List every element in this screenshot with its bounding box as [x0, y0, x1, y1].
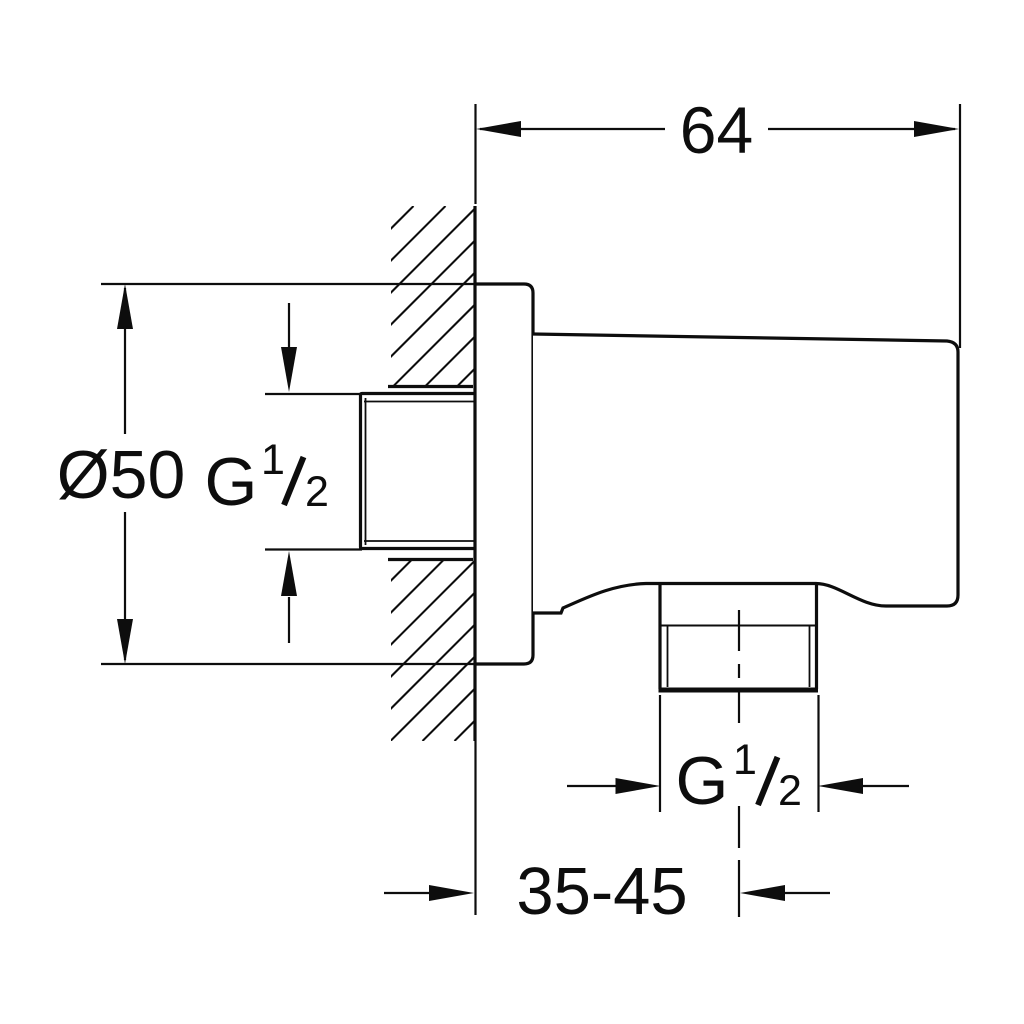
outlet tube — [659, 584, 819, 691]
wall hatching — [0, 206, 990, 741]
wall hole bottom edge — [388, 558, 473, 561]
wall hole top edge — [388, 385, 473, 388]
svg-text:35-45: 35-45 — [516, 854, 687, 929]
svg-text:2: 2 — [778, 767, 802, 815]
dimension G 1/2 (outlet) — [567, 695, 909, 812]
pipe top reference line — [265, 393, 362, 395]
svg-text:64: 64 — [680, 93, 753, 167]
svg-text:2: 2 — [305, 468, 329, 516]
inlet pipe G1/2 thread in wall — [361, 394, 476, 549]
svg-text:1: 1 — [733, 736, 757, 784]
dimension Ø50 — [101, 284, 475, 664]
wall face line — [473, 206, 476, 741]
small arrow up to pipe bottom — [288, 597, 290, 643]
svg-text:G: G — [676, 743, 729, 819]
outlet centerline — [738, 610, 740, 917]
svg-text:G: G — [205, 444, 258, 520]
pipe bottom reference line — [265, 548, 362, 550]
svg-text:1: 1 — [261, 436, 285, 484]
dimension 35-45 — [384, 741, 830, 915]
body outline — [533, 334, 958, 613]
small arrow down to pipe top — [288, 303, 290, 352]
outlet end face — [659, 688, 819, 693]
flange escutcheon — [475, 284, 533, 664]
dimension 64 — [476, 104, 961, 348]
svg-text:Ø50: Ø50 — [57, 437, 186, 513]
